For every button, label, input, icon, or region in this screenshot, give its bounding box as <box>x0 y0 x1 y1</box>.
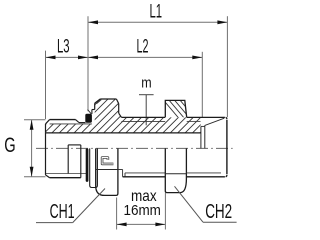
shank line top <box>79 122 85 124</box>
max16 extension right <box>164 193 166 230</box>
dimension m leader vertical <box>145 95 147 126</box>
thread crest bottom left <box>50 177 81 179</box>
shank end vertical <box>80 145 82 178</box>
runout groove right <box>204 125 206 148</box>
runout groove left <box>200 126 202 148</box>
extension line G top <box>24 119 46 121</box>
hex1 to ledge diagonal <box>119 113 122 117</box>
bottom chamfer left <box>46 175 50 178</box>
right end bottom corner <box>226 175 227 177</box>
nut (locknut, section) <box>160 96 204 122</box>
dimension L1 arrows <box>88 20 227 24</box>
ledge/thread crest right <box>187 116 225 118</box>
body chamfer top-left <box>46 120 50 124</box>
thread runout cone <box>205 118 225 125</box>
shank line <box>68 144 81 146</box>
nut bottom view <box>165 148 186 192</box>
washer ledge <box>92 109 95 111</box>
thread runout near hex bottom <box>118 169 123 171</box>
hex1 left face <box>94 103 96 109</box>
hex1 right chamfer <box>116 99 118 104</box>
thread root top (thin) <box>50 123 92 125</box>
washer lip diagonal <box>88 110 92 114</box>
dimension G line <box>31 120 33 177</box>
bore line <box>46 132 201 134</box>
washer edge vertical <box>91 110 93 114</box>
extension line x=88 <box>87 16 89 111</box>
thread root bottom left (thin) <box>46 173 86 175</box>
dimension L3/L2 line <box>46 56 203 58</box>
max16 extension left <box>116 198 118 230</box>
nut facet line <box>165 173 186 175</box>
hex1 top <box>100 98 116 100</box>
thread root middle (thin) <box>121 120 165 122</box>
svg-text:L3: L3 <box>57 37 70 58</box>
body outline top: left face <box>45 124 47 133</box>
thread root bottom middle (thin) <box>125 172 165 174</box>
CH1 leader <box>73 189 105 223</box>
extension line x=45.5 <box>45 51 47 119</box>
right end top corner <box>226 117 227 119</box>
hex1 facet line bottom <box>96 169 118 171</box>
seal washer bottom view <box>90 148 98 187</box>
thread end vertical <box>67 145 69 174</box>
svg-text:CH1: CH1 <box>50 201 75 223</box>
captive seal symbol (spiral glyph) <box>102 158 113 164</box>
thread root bottom right (thin) <box>186 172 221 174</box>
seal (elastomer, section) black <box>85 114 92 123</box>
thread crest bottom right <box>186 176 225 178</box>
svg-text:m: m <box>141 75 151 91</box>
extension line G bottom <box>24 176 46 178</box>
svg-text:16mm: 16mm <box>124 202 161 219</box>
CH2 leader <box>175 186 204 222</box>
CH1 underline <box>36 222 73 224</box>
extension line x=202.3 <box>201 52 203 117</box>
max16 arrows <box>117 223 166 227</box>
hex1 left chamfer <box>95 99 101 103</box>
seal bottom view (black bar) <box>86 148 89 182</box>
right end face <box>226 120 228 174</box>
CH2 underline <box>203 221 237 223</box>
dimension L2 arrows <box>88 56 202 60</box>
thread crest top <box>50 119 76 121</box>
bottom half: left face <box>45 133 47 175</box>
thread end chamfer top <box>76 120 80 123</box>
extension line x=227.4 <box>226 16 228 117</box>
svg-text:G: G <box>4 134 15 157</box>
max16 dimension line <box>117 223 166 225</box>
hex1 right face <box>118 104 120 114</box>
section hatching body <box>30 95 245 140</box>
hex1 bottom view left edge <box>96 148 118 195</box>
hex1 inner facet line <box>97 100 102 104</box>
svg-text:L2: L2 <box>137 37 149 58</box>
thread crest bottom middle <box>123 176 166 178</box>
dimension L3 arrows <box>46 56 89 60</box>
centerline <box>36 147 233 149</box>
svg-text:L1: L1 <box>150 2 163 23</box>
thread root right (thin) <box>187 120 201 122</box>
runout groove top <box>201 125 205 127</box>
dimension L1 line <box>88 21 227 23</box>
svg-text:CH2: CH2 <box>205 201 232 223</box>
dimension m crossbar <box>139 94 154 96</box>
dimension G arrows <box>30 120 34 177</box>
ledge/thread crest middle <box>121 116 165 118</box>
